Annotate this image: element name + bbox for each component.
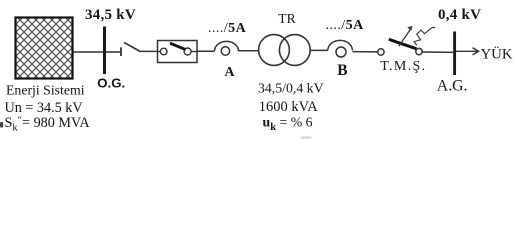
- svg-text:A.G.: A.G.: [437, 78, 468, 95]
- svg-text:A: A: [224, 65, 235, 80]
- svg-text:B: B: [337, 62, 347, 79]
- svg-text:TR: TR: [278, 11, 296, 26]
- svg-text:..../5A: ..../5A: [326, 18, 365, 33]
- svg-text:34,5 kV: 34,5 kV: [85, 7, 136, 23]
- svg-text:Un = 34.5 kV: Un = 34.5 kV: [5, 100, 84, 116]
- svg-text:..../5A: ..../5A: [208, 21, 247, 36]
- svg-text:T.M.Ş.: T.M.Ş.: [380, 59, 426, 74]
- svg-text:0,4 kV: 0,4 kV: [438, 7, 481, 23]
- svg-text:YÜK: YÜK: [481, 45, 513, 62]
- svg-text:O.G.: O.G.: [97, 76, 125, 91]
- svg-text:1600 kVA: 1600 kVA: [259, 99, 318, 115]
- svg-text:Sk″= 980 MVA: Sk″= 980 MVA: [5, 115, 91, 134]
- svg-text:34,5/0,4 kV: 34,5/0,4 kV: [258, 81, 324, 96]
- svg-text:Enerji Sistemi: Enerji Sistemi: [6, 83, 85, 98]
- svg-text:uk = % 6: uk = % 6: [263, 115, 313, 134]
